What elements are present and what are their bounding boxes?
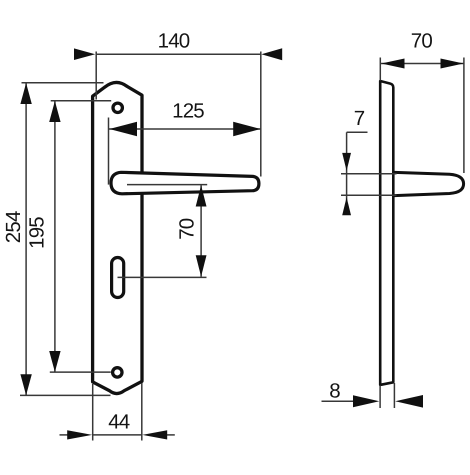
- dimension line 140: [96, 53, 261, 55]
- extension line 70side right: [463, 58, 465, 174]
- tail 8 left: [322, 400, 354, 402]
- extension line 140/125 right: [260, 52, 262, 177]
- extension line 254 bottom: [20, 394, 111, 396]
- arrowhead 7 upper (points down): [342, 153, 351, 171]
- extension line keyhole centre (70 bottom): [118, 276, 207, 278]
- top screw hole: [113, 103, 122, 112]
- extension line 8 right: [393, 383, 395, 408]
- extension line 140 left: [95, 52, 97, 100]
- handle lever (side profile): [391, 172, 464, 195]
- plate profile (side): [380, 81, 393, 385]
- arrowhead 140 right: [261, 48, 282, 60]
- svg-text:8: 8: [329, 380, 340, 403]
- extension line 7 top: [341, 173, 397, 175]
- arrowhead 7 lower (points up): [342, 197, 351, 215]
- arrowhead 44 right: [142, 430, 167, 439]
- svg-text:44: 44: [108, 411, 130, 434]
- arrowhead 254 bottom: [20, 374, 31, 395]
- extension line 7 bottom: [341, 194, 397, 196]
- arrowhead 254 top: [20, 83, 31, 104]
- arrowhead 125 left: [109, 122, 137, 136]
- arrowhead 140 left: [74, 48, 95, 60]
- svg-text:125: 125: [172, 100, 204, 123]
- arrowhead 70side right: [441, 59, 464, 69]
- arrowhead 195 bottom: [49, 351, 60, 372]
- extension line 8 left: [379, 386, 381, 409]
- extension line 44 right: [141, 383, 143, 441]
- svg-text:254: 254: [2, 211, 25, 243]
- svg-text:7: 7: [354, 107, 365, 130]
- keyhole slot: [112, 258, 124, 298]
- dimension line 44: [93, 434, 142, 436]
- arrowhead 195 top: [49, 101, 60, 122]
- dimension line 125: [109, 128, 261, 130]
- arrowhead 70 top: [196, 185, 207, 206]
- dimension line 70 (front): [200, 185, 202, 277]
- lever centerline: [127, 184, 207, 186]
- extension line 44 left: [92, 384, 94, 441]
- dimension line 70 side: [381, 63, 464, 65]
- dimension line 254: [25, 83, 27, 395]
- leader shelf 7: [347, 131, 368, 133]
- arrowhead 125 right: [233, 122, 260, 136]
- arrowhead 44 left: [67, 430, 92, 439]
- arrowhead 70 bottom: [196, 255, 207, 276]
- svg-text:195: 195: [25, 217, 48, 249]
- svg-text:140: 140: [158, 30, 190, 53]
- svg-text:70: 70: [176, 218, 199, 240]
- handle lever (front): [111, 172, 259, 194]
- arrowhead 70side left: [381, 59, 404, 69]
- extension line 70side left: [379, 58, 381, 81]
- arrowhead 8 right: [395, 395, 423, 408]
- plate outline (front): [93, 82, 142, 393]
- extension line 195 top: [51, 100, 111, 102]
- svg-text:70: 70: [411, 29, 433, 52]
- bottom screw hole: [113, 368, 122, 377]
- extension line 254 top: [22, 82, 104, 84]
- extension line 195 bottom: [50, 371, 111, 373]
- tail 44 right: [167, 434, 175, 436]
- dimension line 7: [346, 132, 348, 214]
- arrowhead 8 left: [353, 395, 379, 407]
- tail 44 left: [60, 434, 68, 436]
- dimension line 195: [54, 101, 56, 372]
- extension line 125 left: [108, 118, 110, 185]
